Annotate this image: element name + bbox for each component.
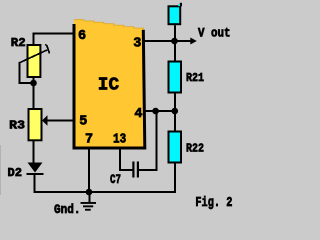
svg-text:6: 6: [78, 29, 86, 44]
wire D2 to ground rail and rail to R22: [35, 163, 176, 192]
resistor R21 body: [169, 62, 182, 93]
supply box top-right notch: [180, 3, 182, 7]
capacitor C7 plates: [132, 162, 134, 178]
svg-text:13: 13: [113, 133, 126, 148]
node dot ground: [86, 189, 93, 196]
wire pin5 to R3 arrow: [47, 120, 74, 122]
potentiometer R2 body: [28, 45, 41, 77]
IC U1 body: [74, 20, 145, 148]
D2 cathode bar: [27, 173, 44, 175]
R2 wiper return wire: [20, 63, 34, 84]
wire R3 to D2: [33, 141, 35, 164]
wire supply box to Vout node to R21: [174, 25, 176, 61]
left scan edge: [0, 145, 1, 195]
svg-text:IC: IC: [98, 74, 119, 95]
node dot R2/R3: [30, 80, 37, 87]
svg-text:V out: V out: [198, 26, 231, 41]
svg-text:Fig. 2: Fig. 2: [195, 195, 232, 211]
svg-text:3: 3: [133, 36, 141, 51]
ground symbol: [81, 192, 97, 211]
supply box top: [169, 6, 181, 24]
svg-text:R2: R2: [11, 36, 26, 50]
node dot C7/pin4: [152, 108, 159, 115]
wire pin6 to R2: [34, 34, 75, 46]
wire R21 to pin4 node: [174, 94, 176, 132]
wire R2 to R3: [33, 77, 35, 109]
svg-text:5: 5: [79, 114, 87, 129]
wire pin13 to C7: [120, 148, 133, 170]
R3 wiper arrowhead: [42, 115, 48, 125]
diode D2 triangle: [28, 163, 43, 173]
svg-text:7: 7: [85, 132, 93, 147]
svg-text:R3: R3: [9, 118, 25, 132]
svg-text:R22: R22: [186, 142, 204, 156]
R2 wiper arrow flag: [47, 45, 50, 53]
wire pin4 to divider: [143, 110, 176, 112]
wire pin7 down: [88, 148, 90, 192]
svg-text:C7: C7: [110, 172, 121, 187]
svg-text:Gnd.: Gnd.: [54, 202, 81, 217]
resistor R22 body: [169, 132, 182, 163]
resistor R3 body: [29, 109, 42, 140]
V out arrow: [175, 40, 191, 42]
R2 wiper diagonal: [19, 50, 47, 63]
node dot divider/pin4: [172, 108, 179, 115]
svg-text:4: 4: [134, 107, 142, 122]
wire C7 to pin4 node: [139, 112, 157, 170]
svg-text:R21: R21: [186, 71, 204, 85]
svg-text:D2: D2: [8, 166, 23, 180]
wire pin3 to Vout node: [142, 40, 175, 42]
node dot Vout: [171, 38, 178, 45]
